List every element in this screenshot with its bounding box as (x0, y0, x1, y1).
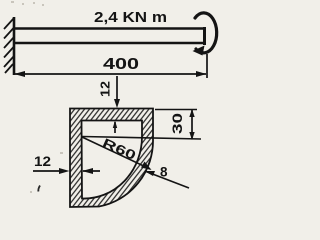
cross-section tube wall (hatched ring) (70, 109, 153, 208)
30 dimension top extension line (155, 109, 197, 111)
extension line at beam end (206, 54, 208, 78)
svg-text:8: 8 (160, 165, 168, 180)
inner arrow pointing left at wall (83, 170, 100, 172)
svg-text:400: 400 (103, 56, 139, 73)
dimension line 400 (15, 73, 206, 75)
wall hatching (4, 18, 14, 73)
beam end cap (203, 27, 206, 45)
paper background (0, 0, 230, 219)
svg-text:2,4 KN m: 2,4 KN m (94, 10, 167, 26)
moment arc (195, 13, 217, 53)
beam bottom line (14, 42, 205, 45)
left wall thickness dimension 12 (33, 170, 64, 172)
R60 arrowhead on arc (141, 162, 152, 171)
arrowhead left of 400 (14, 71, 25, 77)
stray pen tick bottom-left (38, 186, 40, 192)
30 dimension bottom extension line (through section to centre) (82, 137, 201, 140)
wall support vertical line (13, 17, 16, 75)
moment arrowhead (193, 46, 205, 56)
svg-text:30: 30 (170, 113, 185, 134)
top thickness dimension arrow (down) (116, 76, 118, 104)
30 dimension line vertical (191, 110, 193, 140)
svg-text:12: 12 (98, 81, 113, 97)
faint scan specks (11, 1, 63, 193)
svg-text:12: 12 (34, 153, 51, 169)
R60 leader line (82, 137, 150, 169)
top thickness inner tick (114, 122, 116, 133)
beam top line (14, 27, 205, 30)
arrowhead right of 400 (196, 71, 207, 77)
8 leader line (146, 172, 189, 189)
